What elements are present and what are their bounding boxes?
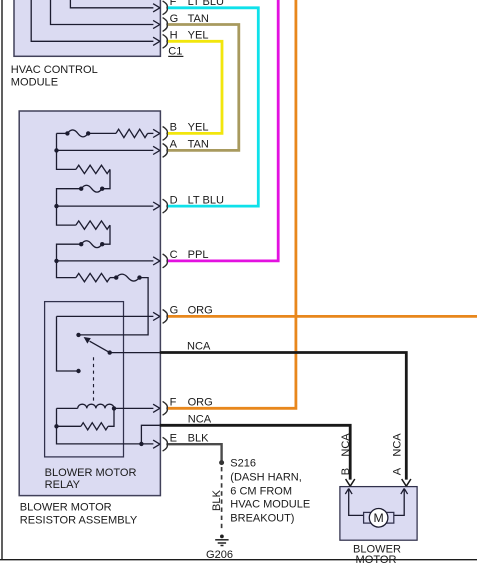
svg-text:BLK: BLK [188,433,210,445]
svg-text:D: D [170,194,178,206]
svg-text:E: E [170,433,177,445]
svg-text:G: G [170,305,179,317]
svg-text:(DASH HARN,: (DASH HARN, [230,472,302,484]
svg-text:BLOWER MOTOR: BLOWER MOTOR [20,501,112,513]
svg-text:B: B [170,122,177,134]
svg-text:C1: C1 [168,45,182,57]
svg-text:NCA: NCA [340,433,352,457]
svg-text:G: G [170,13,179,25]
svg-text:BREAKOUT): BREAKOUT) [230,512,294,524]
svg-text:TAN: TAN [188,139,209,151]
svg-text:LT BLU: LT BLU [188,194,224,206]
svg-text:BLK: BLK [211,489,223,511]
svg-text:C: C [170,249,178,261]
svg-text:LT BLU: LT BLU [188,0,224,8]
svg-text:YEL: YEL [188,122,209,134]
svg-text:NCA: NCA [187,341,211,353]
svg-text:M: M [373,511,383,525]
svg-text:ORG: ORG [188,397,213,409]
svg-text:S216: S216 [230,458,256,470]
svg-text:PPL: PPL [188,249,209,261]
svg-text:MOTOR: MOTOR [356,554,397,563]
svg-text:6 CM FROM: 6 CM FROM [230,485,292,497]
svg-text:HVAC MODULE: HVAC MODULE [230,499,310,511]
svg-text:H: H [170,30,178,42]
svg-text:BLOWER MOTOR: BLOWER MOTOR [45,467,137,479]
svg-text:ORG: ORG [188,305,213,317]
svg-text:MODULE: MODULE [11,76,58,88]
svg-text:B: B [340,468,352,475]
svg-text:TAN: TAN [188,13,209,25]
svg-text:HVAC CONTROL: HVAC CONTROL [11,64,98,76]
svg-text:YEL: YEL [188,30,209,42]
svg-text:A: A [170,139,178,151]
svg-text:RESISTOR ASSEMBLY: RESISTOR ASSEMBLY [20,515,138,527]
svg-text:F: F [170,397,177,409]
svg-text:F: F [170,0,177,8]
svg-text:NCA: NCA [391,433,403,457]
svg-text:A: A [391,467,403,475]
svg-text:RELAY: RELAY [45,479,81,491]
svg-text:NCA: NCA [188,413,212,425]
